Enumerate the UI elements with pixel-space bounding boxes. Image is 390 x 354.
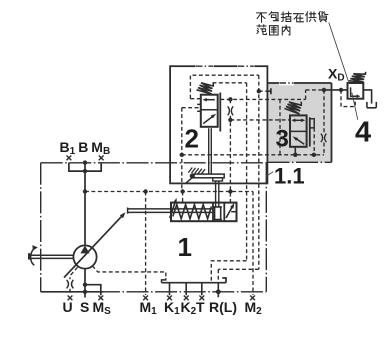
wire R(L) stub [217,283,219,298]
char 围 [270,26,279,35]
leader line to 1.1 [266,172,273,177]
dash-dot interruptions on housing top edge [196,64,255,69]
valve 2 port stubs [197,104,201,111]
wire valve3 right stub drop [313,128,315,155]
pump flow triangle [80,246,89,254]
pump circle P [73,245,96,268]
piston stem [216,181,219,207]
valve 3 continuous-control rail [309,117,311,146]
wire drain manifold bar [162,278,227,283]
pivot hatching [188,168,205,175]
spring of valve 3 [285,102,302,114]
wire manifold left hook [162,278,166,282]
wire inner dashed box valve3 left edge [279,99,281,154]
wire spring2 chamber line y83 [213,82,247,84]
wire B1/B/MB manifold U-shape [69,163,101,172]
svg-text:1: 1 [178,232,192,262]
wire K2 stub [185,283,187,296]
wire M1 gauge drop [145,192,147,296]
lever pivot [190,173,195,178]
envelope 1.1 bottom edge (dash-dot under gray block) [267,161,331,163]
wire controlled pressure V3 to cylinder right chamber [229,99,231,202]
spring of valve 4 [349,72,366,82]
cylinder spring [173,205,212,219]
svg-text:U: U [63,299,73,315]
valve 4 internal arrow [351,87,358,96]
cylinder right box divider [223,203,225,222]
svg-text:M2: M2 [245,299,263,317]
wire case drain to U port [70,267,78,294]
counter piston arrow right [226,205,233,218]
valve 2 continuous-control rail [219,93,221,132]
chinese note: 不包括在供货范围内 [257,11,329,35]
valve 4 body [348,83,364,99]
wire M2 gauge line [252,192,254,295]
svg-text:K2: K2 [181,299,197,317]
svg-text:R(L): R(L) [209,299,237,315]
swashplate variable arrow [64,214,124,277]
wire MS branch [85,285,101,296]
svg-text:4: 4 [355,117,371,149]
svg-text:B: B [78,139,88,155]
valve 2 top flow arrow [205,99,215,101]
char 包 [269,12,279,21]
valve 3 metering arrow [296,138,305,144]
svg-text:K1: K1 [164,299,180,317]
valve 2 body [201,95,218,127]
svg-text:3: 3 [276,126,289,153]
wire K1 stub [169,283,171,296]
wire drain line y155 [182,154,324,156]
cylinder piston face [212,203,214,222]
svg-text:M1: M1 [140,299,158,317]
plug at housing wall XD [267,88,271,94]
wire B-pressure gauge line y192 [85,191,253,193]
orifice at U drain [67,280,74,289]
wire spring chamber drain x258.8 to R(L) [258,75,260,269]
stroke limiter arrow left [170,201,176,218]
wire drain V4 x247 [246,83,248,261]
PILOT LINE NETWORK (dashed) [70,75,355,295]
wire drain to manifold [211,261,246,283]
feedback lever bar [193,174,225,178]
wire case drain to manifold [92,266,166,279]
svg-text:1.1: 1.1 [274,164,305,189]
svg-text:B1: B1 [60,139,76,157]
drive shaft [29,255,73,258]
wire valve2 outlet H1 to gray block [220,98,305,100]
wire plug stub at housing wall [259,90,268,92]
char 括 [281,12,291,22]
valve 2 metering arrow [203,116,213,124]
svg-text:XD: XD [328,66,345,84]
wire XD line to valve4 [324,89,348,91]
gray block 1.1 background [267,83,331,162]
char 范 [257,25,267,35]
svg-text:MS: MS [93,299,112,317]
wire inner dashed box around valve2 spring [190,75,258,99]
char 不 [257,13,267,22]
wire B main riser [84,163,86,246]
svg-text:2: 2 [185,124,199,154]
char 供 [306,12,317,22]
orifice on XD branch [321,134,326,143]
envelope bottom-left solid segment [41,291,104,293]
wire valve3 bottom stub [294,147,296,155]
valve 2 stem (double line) [209,128,212,174]
valve 3 divider [290,130,307,132]
wire T stub [201,283,203,296]
wire orifice line from XD junction [323,90,325,155]
char 在 [293,14,303,22]
wire valve2 left port line x182 [182,108,201,192]
svg-text:S: S [80,299,89,315]
char 内 [282,25,290,35]
spring of valve 2 [197,83,214,94]
wire valve3 feed H2 [230,119,290,121]
counter piston adjuster tick [231,211,236,213]
controller housing box (solid) [170,66,267,183]
valve 3 body [290,115,307,146]
valve 3 double arrow [294,119,302,121]
valve 2 divider [201,109,218,111]
envelope frame unit 1 (dash-dot) [41,162,267,291]
char 货 [319,11,329,21]
wire XD pilot riser in gray block [306,90,324,100]
svg-text:T: T [196,299,205,315]
wire drop to cylinder left chamber [182,192,184,203]
port plug markers (x) [67,156,256,301]
stroking cylinder body [171,203,237,222]
svg-text:MB: MB [91,139,110,157]
valve 3 port loop [310,119,314,128]
wire S suction line [84,269,86,298]
leader line to valve 4 [329,23,350,85]
valve4 pilot loop [341,90,355,107]
rotation direction arrow [31,248,37,266]
wire valve4 outlet to tank [363,90,371,104]
gray block top + right edges [267,83,331,162]
orifice at valve 2 outlet [228,106,233,115]
tank symbol [367,102,376,108]
piston rod to swashplate [128,208,213,214]
